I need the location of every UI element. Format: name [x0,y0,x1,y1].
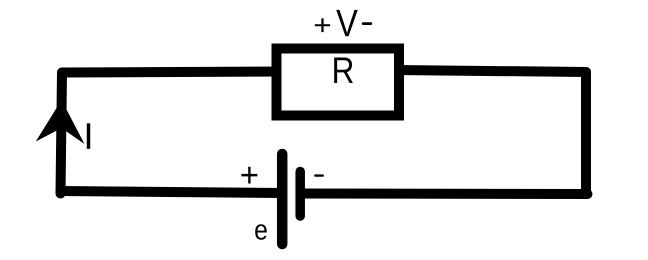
label R [334,58,353,83]
voltage label minus [362,22,372,25]
label e (emf) [255,224,267,240]
wire bottom-left segment [61,191,283,193]
battery negative short plate [295,172,305,217]
wire left side [61,73,63,194]
wire top-left segment [62,72,290,73]
label + (battery positive) [241,167,257,184]
voltage label V [336,10,357,36]
battery positive long plate [277,154,288,244]
wire bottom-right segment [301,189,588,200]
current arrow [36,100,85,144]
wire right side [581,72,591,194]
wire top-right segment [395,70,586,72]
label - (battery negative) [314,174,324,176]
label I (current) [87,123,90,148]
voltage label plus [315,18,330,32]
resistor R [277,49,400,116]
